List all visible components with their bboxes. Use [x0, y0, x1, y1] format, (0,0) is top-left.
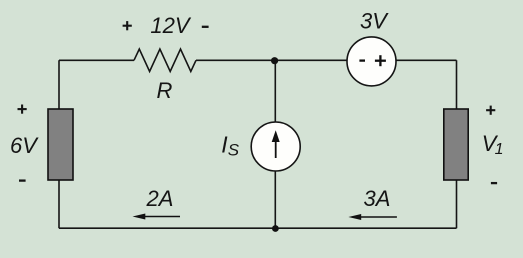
node junction dot top: [271, 57, 278, 64]
svg-text:6V: 6V: [10, 133, 39, 158]
element 6V gray box: [48, 109, 73, 180]
arrow 2A current direction: [133, 214, 181, 220]
wire middle vertical: [274, 60, 276, 228]
wire bottom: [59, 227, 457, 229]
voltage source 3V minus sign: [359, 59, 365, 61]
node junction dot bottom: [272, 225, 279, 232]
wire top-right segment: [196, 59, 457, 61]
wire top-left segment: [59, 59, 134, 61]
wire right vertical: [456, 60, 458, 228]
current source Is arrow: [272, 130, 280, 158]
voltage source 3V circle: [347, 37, 396, 86]
label - (below 6V): [19, 179, 26, 181]
voltage source 3V plus sign: [375, 55, 386, 66]
label + (left of 6V box): [18, 105, 27, 114]
wire left vertical: [58, 60, 60, 228]
arrow 3A current direction: [348, 214, 397, 220]
svg-text:12V: 12V: [150, 13, 191, 38]
current source Is circle: [251, 122, 300, 171]
svg-text:3A: 3A: [364, 186, 391, 211]
resistor R zigzag: [134, 49, 196, 72]
label - (above resistor, right): [202, 26, 209, 28]
svg-text:S: S: [228, 140, 240, 159]
label + (right of V1 box): [486, 106, 495, 115]
svg-text:R: R: [157, 78, 173, 103]
svg-text:2A: 2A: [146, 186, 174, 211]
svg-text:1: 1: [495, 141, 504, 158]
label - (below V1): [491, 182, 497, 184]
svg-text:3V: 3V: [360, 8, 389, 33]
element V1 gray box: [444, 109, 468, 180]
label + (above 12V resistor, left): [123, 21, 132, 30]
